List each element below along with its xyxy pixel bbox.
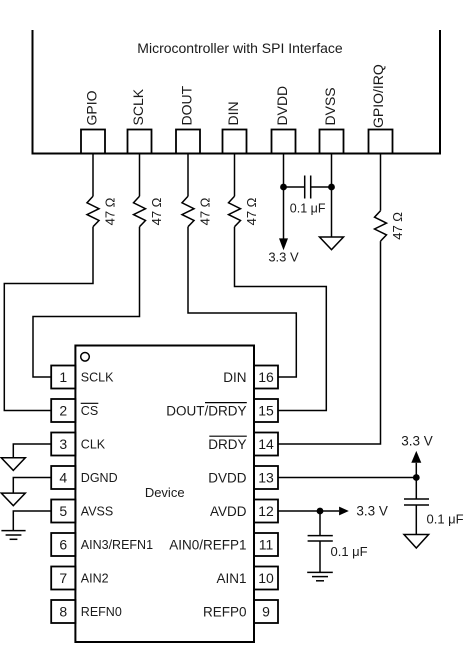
wire DOUT resistor to device pin 16	[188, 227, 296, 377]
wire DVDD to capacitor	[284, 186, 305, 188]
junction dot pin 12	[317, 508, 324, 515]
svg-text:Microcontroller with SPI Inter: Microcontroller with SPI Interface	[137, 40, 343, 56]
svg-text:47 Ω: 47 Ω	[149, 197, 164, 225]
svg-text:DRDY: DRDY	[208, 437, 246, 452]
capacitor C 0.1uF (pin 12)	[308, 536, 333, 541]
svg-text:47 Ω: 47 Ω	[390, 212, 405, 240]
svg-text:DGND: DGND	[81, 471, 118, 485]
capacitor C 0.1uF (pin 13)	[404, 499, 429, 505]
resistor 47ohm on DIN	[229, 196, 241, 226]
wire junction down to capacitor (pin 12)	[319, 511, 321, 536]
svg-text:3.3 V: 3.3 V	[401, 434, 433, 449]
svg-text:47 Ω: 47 Ω	[244, 197, 259, 225]
svg-text:REFN0: REFN0	[81, 605, 122, 619]
device pin 9 box	[254, 600, 278, 623]
wire pin 3 stub	[13, 444, 51, 458]
signal ground (pin 4 DGND, open triangle)	[1, 493, 25, 506]
earth ground (pin 12 branch)	[307, 572, 333, 580]
resistor 47ohm on DOUT	[182, 196, 194, 226]
svg-text:CS: CS	[81, 404, 98, 418]
svg-text:6: 6	[59, 536, 67, 552]
svg-text:11: 11	[259, 536, 274, 552]
svg-text:4: 4	[59, 469, 67, 485]
supply arrow 3.3V (pin 13, pointing up)	[411, 451, 421, 463]
device pin 15 box	[254, 399, 278, 422]
svg-text:0.1 μF: 0.1 μF	[427, 511, 464, 526]
supply arrow 3.3V (DVDD, pointing down)	[279, 238, 288, 250]
device pin 2 box	[51, 399, 75, 422]
device pin 3 box	[51, 433, 75, 456]
svg-text:DOUT/DRDY: DOUT/DRDY	[166, 403, 246, 418]
wire GPIO/IRQ pin to resistor	[380, 154, 382, 211]
svg-text:GPIO: GPIO	[84, 90, 100, 125]
svg-text:47 Ω: 47 Ω	[198, 197, 213, 225]
device box	[75, 346, 254, 643]
wire DOUT pin to resistor	[187, 154, 189, 197]
device pin 13 box	[254, 466, 278, 489]
signal ground (pin 13 branch, open triangle)	[404, 535, 429, 549]
resistor 47ohm on GPIO/IRQ	[375, 211, 387, 241]
device pin 12 box	[254, 500, 278, 523]
MCU pin box DVDD	[272, 130, 296, 154]
wire DIN pin to resistor	[234, 154, 236, 197]
svg-text:DVDD: DVDD	[274, 86, 290, 126]
svg-text:AVDD: AVDD	[210, 504, 247, 519]
wire pin 5 stub	[13, 511, 51, 531]
svg-text:10: 10	[258, 570, 274, 586]
svg-text:16: 16	[258, 369, 274, 385]
svg-text:AIN1: AIN1	[216, 571, 246, 586]
junction dot pin 13	[413, 474, 420, 481]
device pin 4 box	[51, 466, 75, 489]
wire capacitor to DVSS	[311, 186, 332, 188]
microcontroller box (open top) U-MCU	[32, 30, 442, 154]
resistor 47ohm on GPIO	[87, 196, 99, 226]
MCU pin box DVSS	[320, 130, 344, 154]
svg-text:9: 9	[262, 603, 270, 619]
svg-text:14: 14	[258, 436, 274, 452]
svg-text:DVSS: DVSS	[322, 87, 338, 125]
device pin 14 box	[254, 433, 278, 456]
wire GPIO pin to resistor	[92, 154, 94, 197]
wire junction down to capacitor	[415, 478, 417, 500]
device pin 1 box	[51, 366, 75, 389]
svg-text:REFP0: REFP0	[203, 604, 247, 619]
MCU pin box GPIO/IRQ	[369, 130, 393, 154]
svg-text:DIN: DIN	[225, 101, 241, 125]
svg-text:7: 7	[59, 570, 67, 586]
MCU pin box DOUT	[176, 130, 200, 154]
device pin 10 box	[254, 567, 278, 590]
svg-text:47 Ω: 47 Ω	[103, 197, 118, 225]
svg-text:0.1 μF: 0.1 μF	[331, 544, 368, 559]
svg-text:8: 8	[59, 603, 67, 619]
svg-text:DOUT: DOUT	[179, 85, 195, 125]
svg-text:2: 2	[59, 402, 67, 418]
supply arrow 3.3V (pin 12, pointing right)	[339, 507, 349, 516]
svg-text:13: 13	[258, 469, 274, 485]
wire SCLK resistor to device pin 1	[33, 227, 140, 377]
device pin 11 box	[254, 533, 278, 556]
wire DVSS pin down	[331, 154, 333, 238]
svg-text:0.1 μF: 0.1 μF	[290, 201, 326, 215]
wire GPIO resistor to device pin 2	[4, 227, 93, 411]
junction dot DVSS	[328, 184, 335, 191]
wire pin 4 stub	[13, 478, 51, 494]
wire junction up to supply arrow	[415, 463, 417, 478]
wire SCLK pin to resistor	[139, 154, 141, 197]
svg-text:AIN3/REFN1: AIN3/REFN1	[81, 538, 153, 552]
svg-text:AIN2: AIN2	[81, 571, 109, 585]
svg-text:15: 15	[258, 402, 274, 418]
svg-text:Device: Device	[145, 485, 185, 500]
svg-text:12: 12	[258, 503, 274, 519]
junction dot DVDD	[280, 184, 287, 191]
svg-text:SCLK: SCLK	[130, 88, 146, 125]
signal ground (DVSS, open triangle)	[320, 237, 344, 250]
wire capacitor to ground (pin 13)	[415, 505, 417, 535]
svg-text:3: 3	[59, 436, 67, 452]
svg-text:DVDD: DVDD	[208, 470, 247, 485]
device pin 5 box	[51, 500, 75, 523]
svg-text:3.3 V: 3.3 V	[268, 250, 299, 265]
device pin-1 marker circle	[81, 353, 90, 362]
svg-text:1: 1	[59, 369, 67, 385]
wire DIN resistor to device pin 15	[235, 227, 327, 411]
wire pin 13 to supply junction	[278, 477, 416, 479]
svg-text:5: 5	[59, 503, 67, 519]
device pin 7 box	[51, 567, 75, 590]
wire capacitor to ground (pin 12)	[319, 541, 321, 572]
MCU pin box GPIO	[81, 130, 105, 154]
svg-text:AVSS: AVSS	[81, 504, 113, 518]
device pin 8 box	[51, 600, 75, 623]
MCU pin box DIN	[223, 130, 247, 154]
svg-text:GPIO/IRQ: GPIO/IRQ	[370, 64, 386, 128]
wire DVDD pin down	[283, 154, 285, 240]
MCU pin box SCLK	[128, 130, 152, 154]
device pin 6 box	[51, 533, 75, 556]
signal ground (pin 3 CLK, open triangle)	[1, 458, 25, 471]
svg-text:DIN: DIN	[223, 370, 246, 385]
wire GPIO/IRQ resistor to device pin 14	[278, 241, 381, 444]
resistor 47ohm on SCLK	[134, 196, 146, 226]
svg-text:CLK: CLK	[81, 437, 106, 451]
earth ground (pin 5 AVSS)	[1, 531, 25, 540]
device pin 16 box	[254, 366, 278, 389]
capacitor C 0.1uF (DVDD-DVSS)	[305, 176, 311, 199]
svg-text:3.3 V: 3.3 V	[356, 504, 388, 519]
wire pin 12 to supply junction	[278, 510, 339, 512]
svg-text:SCLK: SCLK	[81, 370, 114, 384]
svg-text:AIN0/REFP1: AIN0/REFP1	[169, 537, 246, 552]
